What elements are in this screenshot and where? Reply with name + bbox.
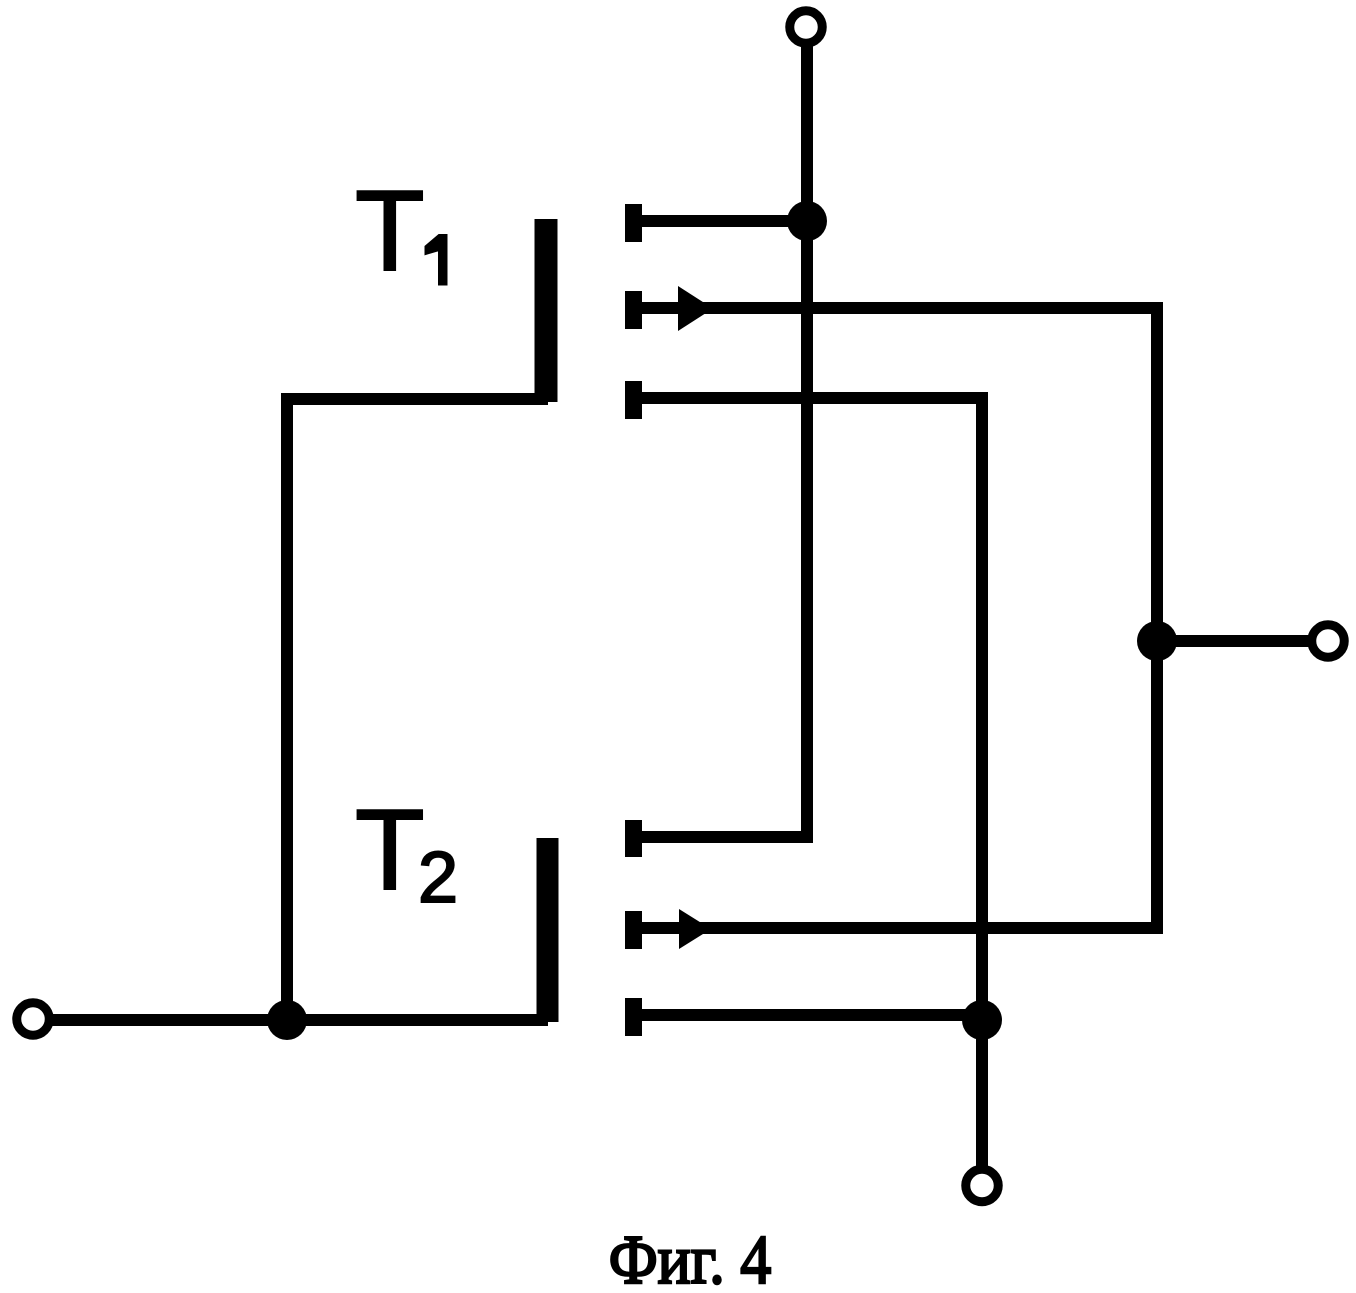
wire T1 bottom stub (y=398) — [642, 392, 982, 404]
wire junction A down to T2 drain stub corner — [801, 221, 813, 843]
wire middle rail vertical down to junction D (x=982) — [976, 392, 988, 1020]
wire T2 arrow stub to right bus (y=928) — [642, 922, 1163, 934]
junction D node (982,1020) — [962, 1000, 1002, 1040]
wire top terminal to junction A (vertical rail x=807) — [801, 40, 813, 221]
wire T1 drain stub to junction A (y=221) — [642, 215, 807, 227]
wire left rail vertical (x=287) — [281, 393, 293, 1020]
transistor T2 arrow — [679, 909, 711, 949]
transistor T1 drain tick — [625, 204, 642, 242]
wire junction B to right output terminal (y=641) — [1157, 635, 1312, 647]
junction A node (807,221) — [787, 201, 827, 241]
wire T2 bottom stub to junction D (y=1015) — [642, 1009, 982, 1021]
wire right bus vertical (x=1157) — [1151, 302, 1163, 934]
wire T1 gate horizontal (y=399) — [287, 393, 548, 405]
wire T2 drain stub (horizontal y=837) — [641, 831, 807, 843]
svg-text:Т: Т — [355, 787, 425, 914]
transistor T1 bulk tick — [625, 381, 642, 419]
wire junction C to T2 gate (y=1020) — [287, 1014, 548, 1026]
terminal top — [790, 11, 823, 44]
wire T1 arrow stub to right bus (y=308) — [642, 302, 1163, 314]
transistor T1 source tick — [625, 291, 642, 329]
transistor T2 bulk tick — [625, 998, 642, 1036]
terminal bottom — [966, 1169, 999, 1202]
transistor T1 gate bar — [535, 219, 558, 402]
terminal left input — [17, 1003, 50, 1036]
svg-text:Т: Т — [355, 168, 425, 295]
transistor T2 source tick — [625, 911, 642, 949]
junction B output node (1157,641) — [1137, 621, 1177, 661]
terminal right output — [1312, 625, 1345, 658]
junction C input node (287,1020) — [267, 1000, 307, 1040]
wire junction D to bottom terminal — [976, 1020, 988, 1170]
transistor T1 arrow — [678, 286, 713, 331]
svg-text:Фиг. 4: Фиг. 4 — [609, 1222, 772, 1293]
transistor T2 drain tick — [625, 820, 642, 857]
svg-text:2: 2 — [418, 838, 458, 918]
transistor T2 gate bar — [537, 838, 559, 1022]
wire left input terminal to junction C (y=1020) — [48, 1014, 287, 1026]
